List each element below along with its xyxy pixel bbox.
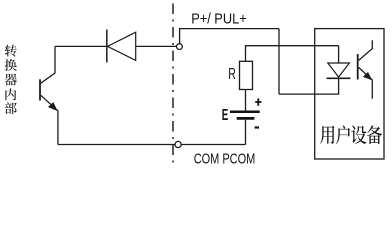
battery plus sign [255,98,261,105]
label text char nei (内) [5,88,16,100]
phototransistor base bar [357,54,359,80]
optocoupler LED triangle [328,63,350,77]
label text char yong (用) [320,126,334,144]
label text char hu (户) [336,125,350,144]
wire resistor to battery [245,90,247,111]
bottom wire right [181,144,245,146]
svg-text:E: E [222,107,229,124]
phototransistor collector wire [359,40,373,60]
svg-text:COM PCOM: COM PCOM [194,151,256,168]
wire P+ rail down [278,29,280,95]
battery E bottom plate [237,117,255,120]
wire to LED cathode [279,79,339,94]
terminal circle COM [175,141,181,147]
resistor branch wire [246,46,339,62]
bottom wire left [58,144,175,146]
battery E top plate [230,110,260,113]
wire top left [55,45,107,47]
wire terminal up and right (P+ rail) [180,29,279,44]
label text char huan (换) [5,59,17,71]
label text char bei (备) [367,125,382,144]
transistor Q1 base bar [39,79,41,100]
label text char qi (器) [5,74,17,86]
wire diode to terminal [136,45,177,47]
phototransistor emitter wire [359,67,373,98]
diode D1 triangle [108,32,136,60]
terminal circle P+ [177,44,183,50]
phototransistor emitter arrow [364,73,371,80]
boundary dash-dot line [172,4,174,166]
optocoupler LED anode wire [338,46,340,63]
wire battery down [245,120,247,145]
svg-text:R: R [228,66,236,83]
label text char zhuan (转) [5,45,17,57]
optocoupler LED cathode bar [327,77,351,79]
battery minus sign [255,126,259,128]
resistor R body [240,61,253,89]
label text char bu (部) [5,102,17,114]
transistor Q1 emitter wire [41,95,58,144]
diode D1 cathode bar [106,30,108,63]
label text char she (设) [351,126,366,145]
svg-text:P+/ PUL+: P+/ PUL+ [191,10,247,27]
transistor Q1 collector wire [41,46,55,83]
user equipment box [315,29,384,159]
transistor Q1 emitter arrow [49,103,57,110]
